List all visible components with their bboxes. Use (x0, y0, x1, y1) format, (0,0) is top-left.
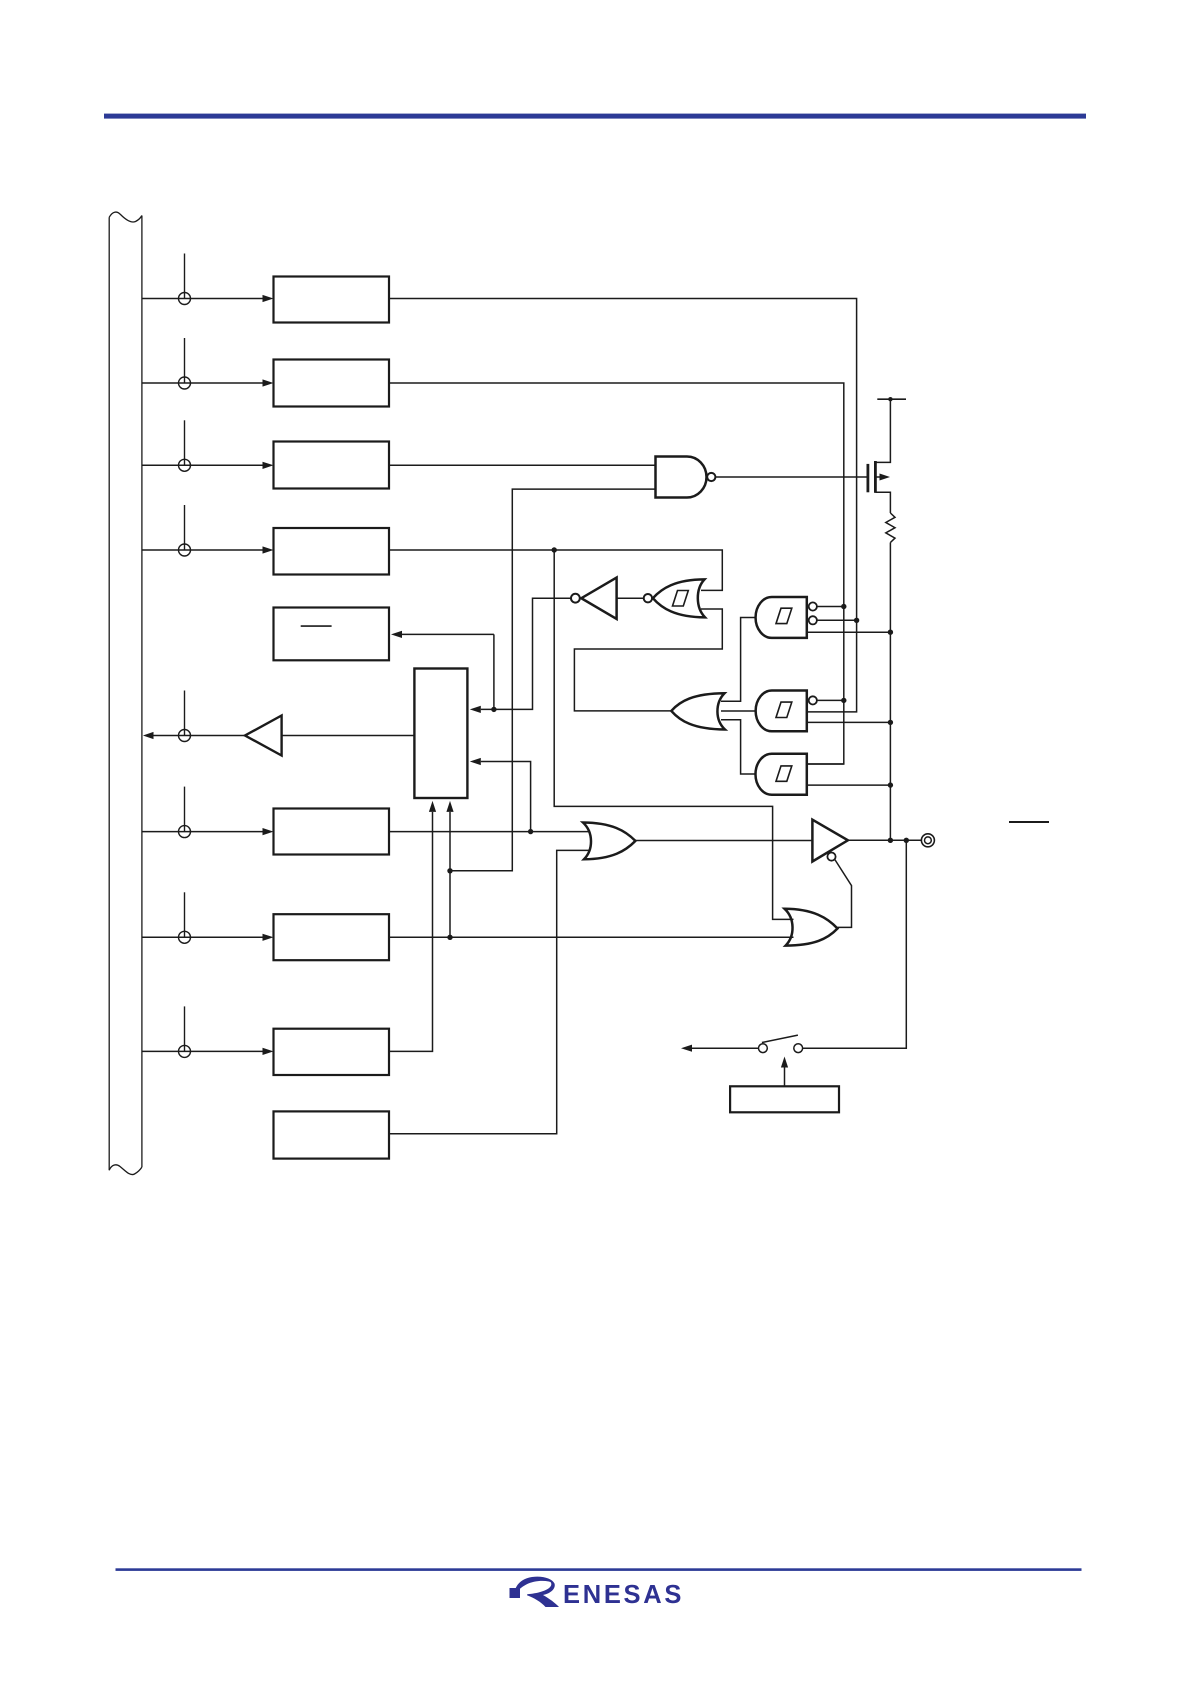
gate A input bubble 2 (809, 616, 817, 624)
row7 write tap circle (179, 826, 191, 838)
buffer enable bubble (827, 853, 835, 861)
junction dot row7 branch (528, 829, 533, 834)
row6 read tap circle (179, 730, 191, 742)
data bus left line (108, 217, 110, 1170)
OR2 output net to NOR lower input (574, 609, 722, 711)
row2 write tap circle (179, 377, 191, 389)
gate B body (AND hysteresis) (756, 691, 807, 732)
OR3 gate body (tristate control OR) (785, 909, 838, 946)
input control arrow wire (784, 1068, 786, 1087)
bus bottom break squiggle (109, 1165, 142, 1175)
row4 write tap circle (179, 544, 191, 556)
footer rule (116, 1568, 1082, 1571)
row3 output net to NAND input (389, 464, 656, 466)
row8 write tap circle (179, 931, 191, 943)
junction dot inverter net (491, 707, 496, 712)
arrowhead up into tall box left (429, 801, 436, 812)
switch right contact (794, 1044, 803, 1053)
register box 3 (274, 442, 390, 489)
row1 write tap stub (184, 254, 186, 299)
row3 write tap circle (179, 459, 191, 471)
row1 arrowhead (263, 295, 274, 302)
gate C second input wire (807, 784, 891, 786)
transistor Q1 drain wire (875, 399, 890, 462)
row9 output net to tall box bottom (389, 812, 433, 1052)
arrowhead input read (681, 1045, 692, 1052)
row7 wire bus to register (142, 831, 263, 833)
row9 arrowhead (263, 1048, 274, 1055)
gate B input bubble (809, 696, 817, 704)
output buffer triangle U6 (812, 820, 848, 862)
gate A output net to OR2 (721, 618, 756, 702)
OR-R1 gate body (output OR) (583, 823, 635, 860)
NAND output bubble (707, 473, 715, 481)
inverter U5 triangle (581, 578, 616, 619)
gate B hysteresis mark (776, 702, 792, 717)
gate A bubble2 wire (817, 619, 857, 621)
row9 write tap circle (179, 1045, 191, 1057)
tall box upper-right input arrow wire from row7 branch (481, 762, 531, 832)
arrowhead up into tall box right (446, 801, 453, 812)
bus top break squiggle (109, 212, 142, 222)
row2 arrowhead (263, 379, 274, 386)
row6 arrowhead into bus (143, 732, 154, 739)
row1 write tap circle (179, 293, 191, 305)
row9 wire bus to register (142, 1050, 263, 1052)
box5 input arrowhead (391, 631, 402, 638)
wire into box5 from node dot (402, 633, 494, 635)
row3 arrowhead (263, 462, 274, 469)
row2 write tap stub (184, 338, 186, 383)
buffer enable net from OR3 (835, 860, 852, 928)
row9 write tap stub (184, 1006, 186, 1051)
net pin to input switch (803, 840, 906, 1048)
gate C top input wire from row2 net (807, 763, 844, 765)
row2 output net to gate C input (389, 383, 844, 764)
junction dot gateA-pull (888, 630, 893, 635)
header rule (104, 114, 1086, 119)
mode control tall box (414, 669, 467, 799)
wire tall box to read buffer (282, 735, 415, 737)
row4 write tap stub (184, 505, 186, 550)
inverter output net to tall box and box5 (481, 598, 571, 709)
row8 arrowhead (263, 934, 274, 941)
junction dot node (447, 868, 452, 873)
row2 wire bus to register (142, 382, 263, 384)
register box 9 (274, 1029, 390, 1075)
NOR gate U4 body (653, 579, 705, 617)
register box 7 (274, 809, 390, 855)
switch lever (762, 1035, 798, 1042)
junction dot row8-vertB (447, 935, 452, 940)
OR-R1 output wire to buffer (635, 840, 812, 842)
gate B output wire to OR2 (721, 710, 756, 712)
gate C body (AND hysteresis) (755, 754, 806, 795)
row4 arrowhead (263, 546, 274, 553)
buffer output wire to pin (848, 839, 922, 841)
junction dot gateB-pull (888, 720, 893, 725)
switch left contact (759, 1044, 768, 1053)
pin terminal inner circle (925, 837, 932, 844)
junction dot A1 (841, 604, 846, 609)
inverter output bubble (571, 594, 580, 603)
row10 output net to OR-R1 lower input (389, 850, 590, 1133)
branch to box5 (493, 634, 495, 709)
junction dot B1 (841, 698, 846, 703)
OR2 gate body (left facing) (671, 693, 725, 729)
junction dot switch branch (904, 838, 909, 843)
gate B bubble wire (817, 699, 844, 701)
gate C output net to OR2 (721, 720, 756, 774)
switch output wire to input bus (692, 1047, 759, 1049)
row7 arrowhead (263, 828, 274, 835)
read buffer triangle U3 (245, 716, 282, 756)
data bus right line (141, 216, 143, 1168)
row3 wire bus to register (142, 464, 263, 466)
junction dot pull-up to pin (888, 838, 893, 843)
NOR hysteresis mark (673, 591, 689, 607)
NAND gate U1 (656, 457, 707, 498)
transistor Q1 gate bar (867, 464, 870, 492)
row3 write tap stub (184, 420, 186, 465)
row1 wire bus to register (142, 298, 263, 300)
row8 write tap stub (184, 892, 186, 937)
junction dot A2 (854, 618, 859, 623)
transistor Q1 bulk arrow (875, 476, 882, 478)
row7 write tap stub (184, 787, 186, 832)
register box 4 (274, 528, 390, 575)
supply junction dot (888, 397, 892, 401)
box5 overline label remnant (301, 625, 332, 627)
row1 output net to gate B input (389, 299, 857, 712)
input control box (730, 1086, 839, 1112)
gate B third input wire (807, 721, 891, 723)
pull-up net vertical to pin (889, 543, 891, 841)
vertical net row8 to tall box bottom (449, 812, 451, 937)
gate C hysteresis mark (776, 766, 792, 781)
pin name overline remnant (1009, 821, 1049, 823)
row8 output net to OR3 (389, 936, 794, 938)
register box 10 (274, 1111, 390, 1158)
pin terminal outer circle (921, 834, 934, 847)
pull-up supply bar (877, 398, 906, 400)
transistor Q1 source wire (875, 492, 890, 513)
row6 wire buffer to bus (153, 735, 245, 737)
row4 branch net to OR3 input (554, 550, 793, 919)
Renesas logo (510, 1577, 685, 1609)
transistor Q1 channel bar (874, 461, 877, 493)
row4 output net to NOR input (389, 550, 722, 590)
row8 wire bus to register (142, 936, 263, 938)
NAND second input net from node (450, 489, 656, 871)
gate A hysteresis mark (776, 608, 792, 623)
register box 8 (274, 914, 390, 960)
gate A bubble1 wire (817, 606, 844, 608)
gate A input bubble 1 (809, 602, 817, 610)
gate A body (AND hysteresis) (756, 597, 807, 638)
svg-text:ENESAS: ENESAS (563, 1581, 684, 1609)
arrowhead into tall box lower (470, 758, 481, 765)
register box 2 (274, 360, 390, 407)
row7 output net to OR-R1 (389, 831, 590, 833)
junction dot gateC-pull (888, 782, 893, 787)
input control arrowhead (781, 1057, 788, 1068)
pull-up resistor R1 (886, 513, 895, 543)
row4 wire bus to register (142, 549, 263, 551)
register box 5 (274, 608, 390, 661)
junction dot row4 branch (552, 547, 557, 552)
register box 1 (274, 277, 390, 323)
NOR output bubble (644, 594, 652, 602)
wire NOR bubble to inverter (617, 597, 644, 599)
NAND output net to transistor gate (715, 476, 866, 478)
row6 read buffer stub (184, 691, 186, 736)
gate A third input wire (807, 631, 891, 633)
arrowhead into tall box upper (470, 706, 481, 713)
